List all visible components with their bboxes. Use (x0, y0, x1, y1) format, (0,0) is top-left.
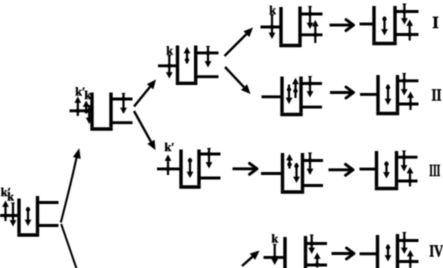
dot electron spin-down (I-b) (381, 17, 388, 36)
spin-down arrow k (U0) (10, 203, 17, 227)
right lead lower line (U1) (110, 121, 133, 124)
right lead lower line (U0) (36, 224, 59, 227)
dot well (U3) (179, 150, 200, 188)
right lead lower line (IV-b) (396, 260, 419, 263)
right lead lower line (U2) (194, 75, 218, 78)
arrow IV-a to IV-b (332, 248, 355, 259)
left lead line (U2) (158, 64, 178, 67)
dot well (III-b) (281, 153, 304, 192)
dot electron spin-down (II-b) (385, 85, 392, 106)
left lead line (IV-a) (264, 256, 286, 259)
right lead lower line (IV-a) (304, 264, 327, 267)
arrow III-b to III-c (329, 164, 354, 175)
left lead line (U1) (70, 109, 93, 112)
right lead upper line (III-c) (395, 156, 418, 159)
spin-up arrow k (U1) (83, 101, 90, 114)
right lead upper line (II-b) (396, 79, 419, 82)
dot electron spin-down (IV-b) (385, 245, 392, 262)
spin-down arrow right upper (II-a) (307, 77, 314, 98)
arrow U2 to state II (225, 67, 251, 94)
dot well (II-a) (280, 77, 302, 115)
arrow II-a to II-b (330, 87, 354, 98)
spin-down arrow k (I-a) (269, 15, 276, 39)
left lead line (U3) (157, 167, 181, 170)
right lead lower line (U3) (198, 177, 221, 180)
dot well (U1) (90, 93, 112, 130)
label k (U0) (7, 190, 14, 204)
spin-down arrow right upper (U3) (206, 149, 213, 169)
label k (I-a) (269, 3, 276, 17)
dot well (U0) (17, 196, 39, 235)
right lead lower line (III-c) (395, 180, 418, 183)
dot electron spin-down (III-c) (383, 162, 390, 179)
spin-up arrow right lower (II-b) (407, 92, 414, 111)
spin-up arrow right lower (I-a) (312, 20, 319, 43)
label II (432, 85, 442, 104)
spin-down arrow k (U1) (86, 105, 93, 124)
left lead line (I-b) (360, 23, 375, 26)
right lead upper line (IV-b) (396, 239, 419, 242)
dot well (II-b) (376, 75, 399, 114)
svg-text:k: k (272, 232, 279, 246)
dot electron spin-down (U0) (25, 207, 32, 226)
svg-text:k′: k′ (165, 140, 175, 154)
left lead line (II-b) (360, 93, 378, 96)
spin-down arrow k (IV-a) (271, 245, 278, 266)
spin-down arrow right upper (U2) (205, 47, 212, 68)
right lead upper line (U2) (194, 51, 218, 54)
wire U0 to row IV (exits bottom) (61, 224, 76, 268)
label III (429, 161, 440, 180)
arrow U1 to U3 (134, 111, 156, 150)
label k-prime (U0) (1, 185, 11, 199)
arrow U2 to state I (225, 28, 254, 57)
arrow U3 to III-b (233, 163, 258, 174)
label I (432, 13, 439, 32)
label k (IV-a) (272, 232, 279, 246)
spin-down arrow k (U2) (166, 56, 173, 79)
svg-text:I: I (432, 13, 439, 32)
spin-up arrow k-prime (U1) (74, 97, 81, 117)
dot well (IV-b) (378, 234, 398, 268)
left lead line (IV-b) (360, 252, 378, 255)
spin-down arrow right upper (I-b) (401, 4, 408, 25)
dot well (U2) (176, 46, 198, 84)
right lead upper line (U1) (110, 98, 133, 101)
dot electron spin-up (U2) (184, 47, 191, 64)
spin-down arrow right upper (III-b) (307, 153, 314, 175)
spin-down arrow right upper (III-c) (401, 151, 408, 172)
right lead lower line (III-b) (301, 184, 323, 187)
right lead upper line (U3) (198, 153, 221, 156)
right lead upper line (U0) (36, 201, 59, 204)
spin-down arrow right upper (IV-a) (308, 235, 315, 254)
dot well (I-a) (279, 7, 301, 46)
right lead upper line (II-a) (300, 82, 322, 85)
dot electron spin-up (III-b) (286, 154, 293, 169)
right lead upper line (III-b) (301, 159, 323, 162)
label IV (429, 242, 443, 261)
dot well (I-b) (372, 6, 396, 44)
svg-text:III: III (429, 161, 440, 180)
dot electron spin-down (III-b) (293, 163, 300, 183)
right lead lower line (II-a) (300, 106, 322, 109)
right lead lower line (I-a) (300, 33, 323, 36)
svg-text:II: II (432, 85, 442, 104)
label k-prime (U3) (165, 140, 175, 154)
spin-down arrow right upper (IV-b) (401, 233, 408, 255)
spin-down arrow right upper (U1) (120, 94, 127, 115)
arrow U0 to U1 (61, 148, 81, 222)
right lead upper line (I-a) (300, 13, 323, 16)
dot electron spin-down (U3) (187, 158, 194, 178)
left lead line (III-c) (360, 168, 377, 171)
dot well (III-c) (375, 151, 398, 189)
svg-text:k: k (7, 190, 14, 204)
dot electron spin-down (II-a) (286, 85, 293, 105)
spin-up arrow k-prime (U0) (2, 201, 9, 222)
dot well (IV-a) (285, 236, 306, 268)
arrow into IV-a (242, 251, 260, 267)
spin-up arrow right lower (I-b) (406, 20, 413, 41)
dot electron spin-up (II-a) (292, 78, 299, 98)
label k (U1) (85, 88, 92, 102)
left lead line (II-a) (262, 95, 283, 98)
spin-down arrow right upper (I-a) (307, 7, 314, 30)
svg-text:IV: IV (429, 242, 443, 261)
arrow I-a to I-b (330, 20, 354, 31)
spin-up arrow right lower (III-c) (407, 167, 414, 187)
label k (U2) (166, 43, 173, 57)
left lead line (I-a) (261, 26, 282, 29)
spin-up arrow k-prime (U3) (165, 155, 172, 176)
spin-up arrow right lower (IV-b) (407, 250, 414, 268)
right lead upper line (I-b) (394, 10, 419, 13)
left lead line (U0) (0, 214, 19, 217)
spin-up arrow right lower (IV-a) (314, 253, 321, 268)
right lead upper line (IV-a) (304, 242, 327, 245)
spin-down arrow right upper (II-b) (401, 74, 408, 96)
label k-prime (U1) (75, 84, 85, 98)
left lead line (III-b) (261, 172, 283, 175)
arrow U1 to U2 (134, 80, 156, 107)
right lead lower line (I-b) (394, 33, 419, 36)
right lead lower line (II-b) (396, 103, 419, 106)
